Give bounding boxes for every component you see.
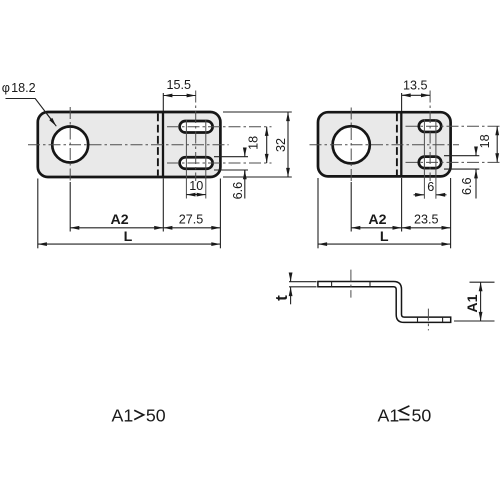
svg-text:A1: A1 xyxy=(378,405,400,425)
svg-text:6.6: 6.6 xyxy=(231,182,245,200)
svg-text:A2: A2 xyxy=(111,212,129,228)
svg-text:50: 50 xyxy=(412,405,432,425)
svg-text:A1: A1 xyxy=(465,294,481,312)
svg-text:18: 18 xyxy=(478,134,492,148)
svg-text:50: 50 xyxy=(146,405,166,425)
svg-text:32: 32 xyxy=(274,138,288,152)
svg-text:A1: A1 xyxy=(112,405,134,425)
svg-text:23.5: 23.5 xyxy=(414,212,439,226)
svg-text:27.5: 27.5 xyxy=(179,212,204,226)
svg-text:6: 6 xyxy=(427,180,434,194)
svg-text:6.6: 6.6 xyxy=(460,177,474,195)
svg-text:φ18.2: φ18.2 xyxy=(2,81,36,95)
svg-text:18: 18 xyxy=(246,136,260,150)
svg-text:13.5: 13.5 xyxy=(403,79,428,93)
svg-text:t: t xyxy=(272,295,291,301)
svg-text:15.5: 15.5 xyxy=(167,78,192,92)
svg-text:L: L xyxy=(380,229,389,245)
svg-text:L: L xyxy=(124,229,133,245)
svg-text:10: 10 xyxy=(189,179,203,193)
svg-text:A2: A2 xyxy=(368,212,386,228)
